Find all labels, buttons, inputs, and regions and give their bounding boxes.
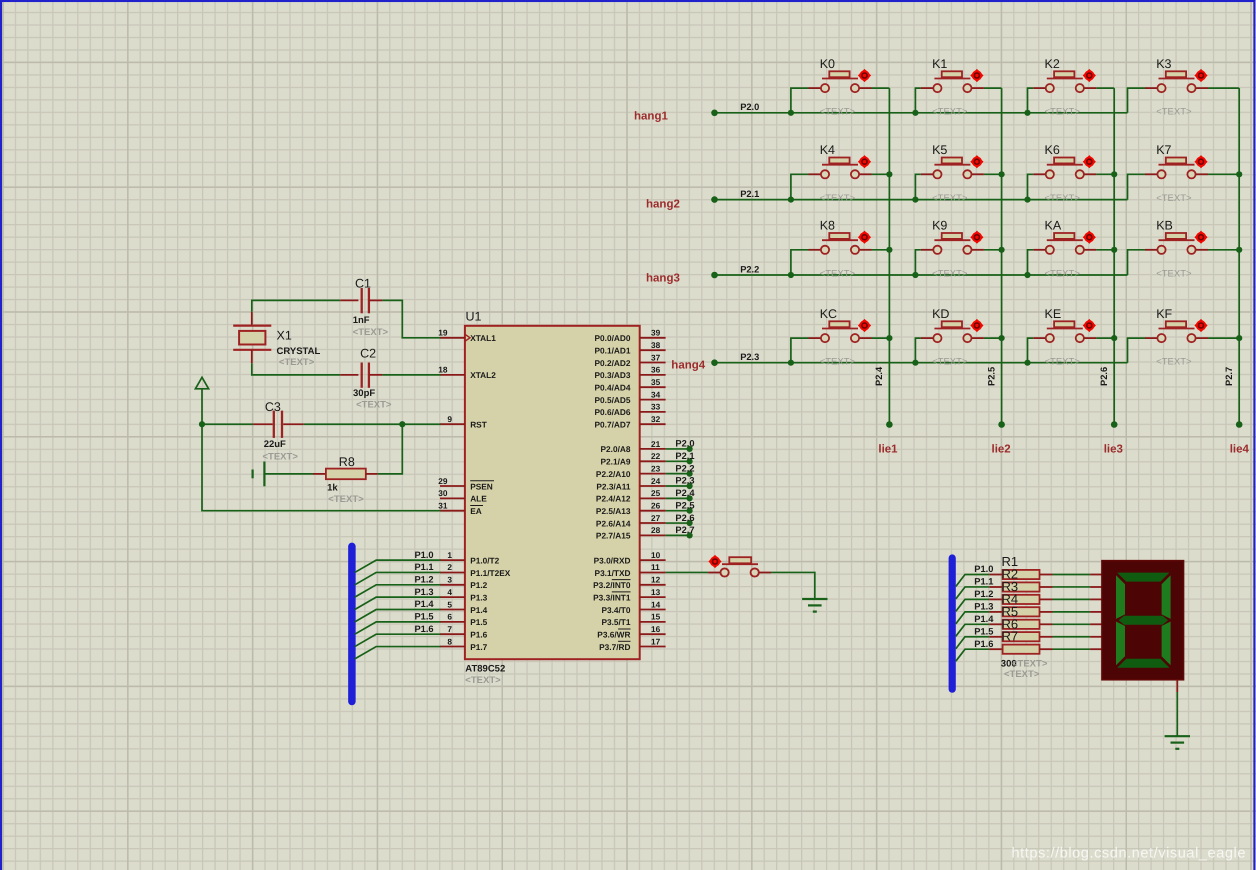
svg-text:lie1: lie1 (878, 444, 898, 456)
svg-text:15: 15 (651, 612, 661, 622)
svg-text:P3.1/TXD: P3.1/TXD (595, 568, 631, 578)
node hang2 start (711, 196, 718, 203)
resistor R8 (313, 469, 378, 480)
node KC row junction (788, 360, 794, 366)
pin 16 P3.6/WR (right) (597, 624, 665, 640)
svg-text:10: 10 (651, 550, 661, 560)
svg-text:33: 33 (651, 402, 661, 412)
wire KC left to row (791, 338, 809, 363)
node K8 row junction (788, 272, 794, 278)
resistor R7 (989, 645, 1052, 654)
node hang3 start (711, 272, 718, 279)
pin 17 P3.7/RD (right) (599, 636, 665, 652)
svg-text:34: 34 (651, 389, 661, 399)
node KE column junction (1111, 335, 1117, 341)
pin 31 EA (left) (438, 501, 483, 517)
svg-text:P2.5/A13: P2.5/A13 (596, 506, 631, 516)
push button KF (1145, 319, 1208, 342)
svg-text:2: 2 (447, 562, 452, 572)
svg-text:KF: KF (1156, 307, 1172, 321)
wire R2 to display (1053, 586, 1091, 588)
pin 4 P1.3 (left) (440, 587, 488, 603)
push button KC (809, 319, 872, 342)
pin 18 XTAL2 (left) (438, 365, 496, 381)
svg-text:P1.0/T2: P1.0/T2 (470, 555, 499, 565)
svg-text:13: 13 (651, 587, 661, 597)
resistor R5 (989, 620, 1052, 629)
node KC column junction (886, 335, 892, 341)
pin 37 P0.2/AD2 (right) (595, 352, 666, 368)
wire K6 right to column (1096, 173, 1114, 175)
svg-text:P2.0/A8: P2.0/A8 (601, 444, 631, 454)
wire P2.3 net stub (666, 485, 690, 487)
pin 24 P2.3/A11 (right) (596, 476, 665, 492)
wire K7 left to row (1128, 174, 1146, 199)
svg-text:P2.1/A9: P2.1/A9 (601, 457, 631, 467)
node K4 column junction (886, 171, 892, 177)
node K6 column junction (1111, 171, 1117, 177)
pin 2 P1.1/T2EX (left) (440, 562, 511, 578)
pin 32 P0.7/AD7 (right) (595, 414, 666, 430)
node K1 row junction (912, 110, 918, 116)
svg-text:<TEXT>: <TEXT> (932, 107, 968, 118)
pin 26 P2.5/A13 (right) (596, 501, 666, 517)
wire P2.5 net stub (666, 510, 690, 512)
segment d (1117, 659, 1169, 668)
svg-text:1k: 1k (327, 483, 338, 494)
svg-text:17: 17 (651, 636, 661, 646)
svg-text:K6: K6 (1045, 143, 1060, 157)
wire P1.5 chip to bus (355, 622, 441, 634)
display pin stub 4 (1090, 611, 1102, 613)
pin 9 RST (left) (440, 414, 487, 430)
svg-text:hang3: hang3 (646, 272, 680, 284)
bus P1 (right) (949, 558, 956, 689)
svg-text:31: 31 (438, 501, 448, 511)
node column lie1 bottom (886, 421, 893, 428)
wire keypad column lie3 (1113, 88, 1115, 424)
node column lie2 bottom (998, 421, 1005, 428)
capacitor C1 (362, 288, 369, 313)
push button KE (1033, 319, 1096, 342)
svg-text:R8: R8 (339, 455, 355, 469)
svg-text:hang1: hang1 (634, 110, 668, 122)
svg-text:P3.6/WR: P3.6/WR (597, 630, 630, 640)
display pin stub 6 (1090, 636, 1102, 638)
svg-text:P2.0: P2.0 (675, 439, 694, 449)
svg-text:<TEXT>: <TEXT> (1045, 268, 1081, 279)
svg-text:<TEXT>: <TEXT> (932, 357, 968, 368)
wire KA right to column (1096, 249, 1114, 251)
wire bus to R5 (956, 624, 990, 636)
pin 10 P3.0/RXD (right) (594, 550, 666, 566)
svg-text:<TEXT>: <TEXT> (279, 357, 315, 368)
svg-text:K9: K9 (932, 219, 947, 233)
push button K8 (809, 231, 872, 254)
svg-text:KC: KC (820, 307, 837, 321)
wire KF left to row (1128, 338, 1146, 363)
svg-text:ALE: ALE (470, 494, 487, 504)
node KA column junction (1111, 247, 1117, 253)
svg-text:X1: X1 (277, 329, 292, 343)
pin 12 P3.2/INT0 (right) (593, 575, 665, 591)
node P2.4 stub end (687, 495, 693, 501)
wire keypad column lie1 (888, 88, 890, 424)
svg-text:P2.6/A14: P2.6/A14 (596, 518, 631, 528)
svg-text:C1: C1 (355, 277, 371, 291)
wire K1 left to row (915, 88, 921, 113)
svg-text:37: 37 (651, 352, 661, 362)
svg-text:P2.2/A10: P2.2/A10 (596, 469, 631, 479)
node P2.7 stub end (687, 532, 693, 538)
svg-text:P1.2: P1.2 (414, 575, 433, 585)
svg-text:lie3: lie3 (1104, 444, 1123, 456)
svg-text:P2.4: P2.4 (675, 488, 695, 498)
svg-text:KE: KE (1045, 307, 1062, 321)
svg-text:<TEXT>: <TEXT> (1012, 659, 1048, 670)
wire R1 to display (1053, 574, 1091, 576)
svg-text:C3: C3 (265, 400, 281, 414)
svg-text:P2.4: P2.4 (874, 366, 884, 386)
wire K7 right to column (1208, 173, 1239, 175)
svg-text:P1.3: P1.3 (414, 587, 433, 597)
svg-text:P2.5: P2.5 (675, 500, 694, 510)
wire P2.6 net stub (666, 522, 690, 524)
wire display to ground (1176, 692, 1178, 736)
svg-text:39: 39 (651, 328, 661, 338)
pin 39 P0.0/AD0 (right) (595, 328, 666, 344)
pin 35 P0.4/AD4 (right) (595, 377, 666, 393)
ground middle (802, 599, 827, 612)
pin 6 P1.5 (left) (440, 612, 488, 628)
wire R7 to display (1053, 648, 1091, 650)
svg-text:23: 23 (651, 463, 661, 473)
wire keypad row hang1 (715, 112, 1128, 114)
7-segment display body (1102, 561, 1184, 680)
pin 30 ALE (left) (438, 488, 487, 504)
node K9 column junction (999, 247, 1005, 253)
svg-text:P2.6: P2.6 (1099, 367, 1109, 386)
svg-text:22: 22 (651, 451, 661, 461)
svg-text:29: 29 (438, 476, 448, 486)
wire K6 left to row (1028, 174, 1034, 199)
svg-text:25: 25 (651, 488, 661, 498)
svg-text:P1.1: P1.1 (974, 577, 993, 587)
wire KD left to row (915, 338, 921, 363)
pin 25 P2.4/A12 (right) (596, 488, 666, 504)
wire R6 to display (1053, 636, 1091, 638)
pin 14 P3.4/T0 (right) (601, 599, 665, 615)
wire RST node down to EA pin 31 (202, 424, 441, 510)
wire KC right to column (872, 337, 890, 339)
svg-text:P2.3: P2.3 (675, 476, 694, 486)
wire K1 right to column (984, 87, 1002, 89)
svg-text:P0.0/AD0: P0.0/AD0 (595, 333, 631, 343)
svg-text:P2.2: P2.2 (675, 463, 694, 473)
push button K3 (1145, 69, 1208, 92)
svg-text:P0.5/AD5: P0.5/AD5 (595, 395, 631, 405)
wire bus to R3 (956, 599, 990, 611)
wire battery to R8 (264, 473, 313, 475)
svg-text:<TEXT>: <TEXT> (1045, 193, 1081, 204)
svg-text:https://blog.csdn.net/visual_e: https://blog.csdn.net/visual_eagle (1011, 846, 1246, 862)
wire bus to R4 (956, 612, 990, 624)
push button K5 (921, 155, 984, 178)
svg-text:R7: R7 (1002, 629, 1019, 644)
wire K4 right to column (872, 173, 890, 175)
svg-text:P1.4: P1.4 (974, 614, 994, 624)
push button KB (1145, 231, 1208, 254)
svg-text:XTAL2: XTAL2 (470, 370, 496, 380)
svg-text:P0.4/AD4: P0.4/AD4 (595, 383, 631, 393)
display pin stub 2 (1090, 586, 1102, 588)
svg-text:12: 12 (651, 575, 661, 585)
wire keypad column lie4 (1238, 88, 1240, 424)
pin 1 P1.0/T2 (left) (440, 550, 500, 566)
svg-text:P0.7/AD7: P0.7/AD7 (595, 420, 631, 430)
wire KD right to column (984, 337, 1002, 339)
svg-text:AT89C52: AT89C52 (465, 664, 505, 675)
svg-text:XTAL1: XTAL1 (470, 333, 496, 343)
svg-text:14: 14 (651, 599, 661, 609)
pin XTAL1 clock marker (465, 335, 470, 341)
wire C1 left lead (340, 299, 358, 301)
pin 5 P1.4 (left) (440, 599, 488, 615)
node KB column junction (1236, 247, 1242, 253)
wire bus to R2 (956, 587, 990, 599)
pin 8 P1.7 (left) (440, 636, 488, 652)
node hang1 start (711, 110, 718, 117)
svg-text:hang4: hang4 (671, 360, 705, 372)
node K4 row junction (788, 197, 794, 203)
svg-text:P2.7: P2.7 (675, 525, 694, 535)
push button K7 (1145, 155, 1208, 178)
svg-text:K1: K1 (932, 57, 947, 71)
svg-text:<TEXT>: <TEXT> (465, 675, 501, 686)
wire bus to R6 (956, 637, 990, 649)
pin 19 XTAL1 (left) (438, 328, 496, 344)
wire keypad row hang3 (715, 274, 1128, 276)
pin 21 P2.0/A8 (right) (601, 439, 666, 454)
wire P2.0 net stub (666, 448, 690, 450)
node P2.3 stub end (687, 483, 693, 489)
wire K4 left to row (791, 174, 809, 199)
display pin stub 3 (1090, 598, 1102, 600)
power arrow symbol (195, 377, 208, 389)
svg-text:U1: U1 (466, 310, 482, 324)
wire C2 left lead (340, 374, 358, 376)
svg-text:RST: RST (470, 420, 487, 430)
wire R8 to RST node (378, 424, 403, 474)
node K8 column junction (886, 247, 892, 253)
svg-text:<TEXT>: <TEXT> (932, 268, 968, 279)
svg-text:38: 38 (651, 340, 661, 350)
svg-text:P1.4: P1.4 (414, 599, 434, 609)
push button KA (1033, 231, 1096, 254)
pin 13 P3.3/INT1 (right) (593, 587, 665, 603)
wire K2 left to row (1028, 88, 1034, 113)
svg-text:P0.1/AD1: P0.1/AD1 (595, 346, 631, 356)
svg-text:P2.6: P2.6 (675, 513, 694, 523)
wire K2 right to column (1096, 87, 1114, 89)
node K9 row junction (912, 272, 918, 278)
node K7 column junction (1236, 171, 1242, 177)
svg-text:P0.6/AD6: P0.6/AD6 (595, 407, 631, 417)
pin 3 P1.2 (left) (440, 575, 488, 591)
wire R5 to display (1053, 623, 1091, 625)
display common pin (1176, 680, 1178, 692)
svg-text:16: 16 (651, 624, 661, 634)
svg-text:P2.3: P2.3 (740, 352, 759, 362)
svg-text:P3.2/INT0: P3.2/INT0 (593, 580, 631, 590)
push button (reset key) (708, 555, 771, 577)
svg-text:<TEXT>: <TEXT> (1156, 268, 1192, 279)
push button K6 (1033, 155, 1096, 178)
svg-text:P1.6: P1.6 (974, 639, 993, 649)
wire KF right to column (1208, 337, 1239, 339)
node K5 column junction (999, 171, 1005, 177)
svg-text:P1.6: P1.6 (470, 630, 487, 640)
svg-text:<TEXT>: <TEXT> (932, 193, 968, 204)
wire K0 left to row (791, 88, 809, 113)
svg-text:K4: K4 (820, 143, 835, 157)
node RST left junction (199, 421, 205, 427)
svg-text:18: 18 (438, 365, 448, 375)
wire C3 right lead (283, 423, 303, 425)
svg-text:K2: K2 (1045, 57, 1060, 71)
resistor R3 (989, 595, 1052, 604)
wire P1.3 chip to bus (355, 597, 441, 609)
svg-text:K3: K3 (1156, 57, 1171, 71)
pin 33 P0.6/AD6 (right) (595, 402, 666, 418)
svg-text:P1.5: P1.5 (470, 617, 487, 627)
resistor R2 (989, 582, 1052, 591)
wire K8 right to column (872, 249, 890, 251)
svg-text:P1.4: P1.4 (470, 605, 487, 615)
capacitor C3 (274, 411, 282, 438)
svg-text:<TEXT>: <TEXT> (820, 268, 856, 279)
wire P1.7 chip to bus (355, 647, 441, 659)
node column lie4 bottom (1236, 421, 1243, 428)
node K2 row junction (1024, 110, 1030, 116)
ground display (1165, 736, 1190, 749)
pin 22 P2.1/A9 (right) (601, 451, 666, 467)
svg-text:1nF: 1nF (353, 315, 370, 326)
display pin stub 1 (1090, 574, 1102, 576)
wire P1.2 chip to bus (355, 585, 441, 597)
svg-text:6: 6 (447, 612, 452, 622)
wire pin 11 to button (666, 571, 709, 573)
crystal X1 (233, 312, 271, 363)
svg-text:7: 7 (447, 624, 452, 634)
svg-text:lie4: lie4 (1230, 444, 1250, 456)
pin 28 P2.7/A15 (right) (596, 525, 666, 541)
svg-text:P2.1: P2.1 (740, 189, 759, 199)
node P2.2 stub end (687, 471, 693, 477)
pin 7 P1.6 (left) (440, 624, 488, 640)
node KF column junction (1236, 335, 1242, 341)
pin 36 P0.3/AD3 (right) (595, 365, 666, 381)
wire bus to R1 (956, 575, 990, 587)
pin 29 PSEN (left) (438, 476, 494, 492)
node P2.6 stub end (687, 520, 693, 526)
svg-text:<TEXT>: <TEXT> (820, 107, 856, 118)
svg-text:36: 36 (651, 365, 661, 375)
display pin stub 7 (1090, 648, 1102, 650)
push button KD (921, 319, 984, 342)
svg-text:<TEXT>: <TEXT> (820, 357, 856, 368)
svg-text:<TEXT>: <TEXT> (1156, 193, 1192, 204)
node RST right junction (399, 421, 405, 427)
wire X1 bottom to C2 (252, 363, 340, 375)
node P2.0 stub end (687, 446, 693, 452)
svg-text:1: 1 (447, 550, 452, 560)
svg-text:<TEXT>: <TEXT> (263, 452, 299, 463)
svg-text:P1.3: P1.3 (470, 592, 487, 602)
IC U1 AT89C52 body (465, 326, 640, 659)
wire R4 to display (1053, 611, 1091, 613)
svg-text:30: 30 (438, 488, 448, 498)
segment g (1119, 616, 1168, 625)
node column lie3 bottom (1111, 421, 1118, 428)
display pin stub 5 (1090, 623, 1102, 625)
push button K2 (1033, 69, 1096, 92)
node P2.1 stub end (687, 458, 693, 464)
svg-text:P1.3: P1.3 (974, 601, 993, 611)
wire P2.7 net stub (666, 534, 690, 536)
svg-text:KA: KA (1045, 219, 1062, 233)
wire KE right to column (1096, 337, 1114, 339)
svg-text:P2.4/A12: P2.4/A12 (596, 494, 631, 504)
svg-text:8: 8 (447, 636, 452, 646)
svg-text:P0.3/AD3: P0.3/AD3 (595, 370, 631, 380)
node KD row junction (912, 360, 918, 366)
svg-text:32: 32 (651, 414, 661, 424)
pin 38 P0.1/AD1 (right) (595, 340, 666, 356)
svg-text:<TEXT>: <TEXT> (820, 193, 856, 204)
svg-text:P2.7: P2.7 (1224, 367, 1234, 386)
resistor R1 (989, 570, 1052, 579)
capacitor C2 (362, 363, 369, 388)
node P2.5 stub end (687, 508, 693, 514)
svg-text:35: 35 (651, 377, 661, 387)
segment a (1117, 573, 1169, 582)
svg-text:19: 19 (438, 328, 448, 338)
pin 23 P2.2/A10 (right) (596, 463, 666, 479)
push button K9 (921, 231, 984, 254)
wire C2 to XTAL2 pin 18 (382, 374, 440, 376)
node KD column junction (999, 335, 1005, 341)
svg-text:K5: K5 (932, 143, 947, 157)
svg-text:PSEN: PSEN (470, 481, 493, 491)
svg-text:4: 4 (447, 587, 452, 597)
svg-text:24: 24 (651, 476, 661, 486)
wire bus to R7 (956, 649, 990, 661)
svg-text:21: 21 (651, 439, 661, 449)
svg-text:<TEXT>: <TEXT> (353, 327, 389, 338)
svg-text:P0.2/AD2: P0.2/AD2 (595, 358, 631, 368)
svg-text:P1.0: P1.0 (974, 564, 993, 574)
node K6 row junction (1024, 197, 1030, 203)
svg-text:P1.5: P1.5 (974, 626, 993, 636)
svg-text:K0: K0 (820, 57, 835, 71)
wire K5 left to row (915, 174, 921, 199)
wire K9 right to column (984, 249, 1002, 251)
svg-text:P2.5: P2.5 (986, 367, 996, 386)
svg-text:P2.7/A15: P2.7/A15 (596, 531, 631, 541)
svg-text:<TEXT>: <TEXT> (356, 400, 392, 411)
svg-text:P3.4/T0: P3.4/T0 (601, 605, 630, 615)
